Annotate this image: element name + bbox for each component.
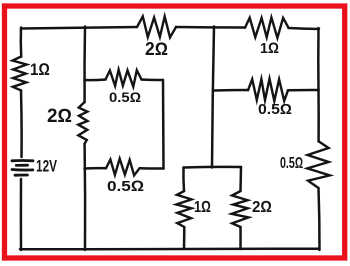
wire top-left segment — [21, 27, 137, 29]
svg-text:0.5Ω: 0.5Ω — [107, 178, 144, 195]
svg-text:1Ω: 1Ω — [30, 60, 50, 79]
wire right (bottom) — [319, 188, 320, 250]
resistor R3 1Ω (top right) — [245, 17, 289, 38]
svg-text:1Ω: 1Ω — [194, 199, 211, 216]
svg-text:12V: 12V — [36, 157, 57, 176]
wire 0.5Ω branch (right lead) — [288, 89, 319, 92]
resistor R7 0.5Ω (right branch) — [248, 79, 288, 101]
wire loop top branch (right lead) — [142, 78, 164, 81]
svg-text:2Ω: 2Ω — [252, 199, 272, 216]
resistor R1 1Ω (left) — [13, 57, 27, 91]
svg-text:2Ω: 2Ω — [145, 39, 168, 59]
resistor R4 2Ω (middle vertical) — [78, 102, 87, 144]
battery V1 12V — [12, 161, 33, 176]
wire left (bottom) — [20, 179, 23, 250]
resistor R8 0.5Ω (far right) — [307, 141, 330, 188]
wire right (top) — [317, 28, 320, 90]
resistor R6 0.5Ω (loop bottom) — [106, 159, 140, 176]
wire loop right side — [162, 80, 165, 169]
wire loop top branch (left lead) — [85, 78, 106, 81]
svg-text:1Ω: 1Ω — [260, 40, 279, 57]
wire loop bottom branch (left lead) — [85, 167, 107, 170]
svg-text:0.5Ω: 0.5Ω — [258, 102, 292, 118]
wire R9 top lead — [182, 168, 185, 192]
wire bracket (parallel pair top) — [184, 166, 242, 169]
wire node-A vertical (top) — [83, 27, 86, 103]
wire loop bottom branch (right lead) — [140, 167, 164, 170]
wire node-A vertical (bottom) — [83, 144, 86, 250]
svg-text:2Ω: 2Ω — [47, 106, 72, 127]
wire left (top) — [20, 28, 23, 57]
wire R10 top lead — [239, 167, 242, 191]
wire R10 bottom lead — [239, 227, 242, 249]
wire 0.5Ω branch (left lead) — [214, 89, 248, 92]
svg-text:0.5Ω: 0.5Ω — [109, 89, 141, 105]
wire R9 bottom lead — [183, 227, 186, 249]
resistor R10 2Ω (bottom right of pair) — [232, 191, 249, 227]
wire bottom — [20, 247, 319, 250]
resistor R9 1Ω (bottom left of pair) — [176, 191, 191, 227]
wire right (middle) — [317, 90, 320, 142]
resistor R2 2Ω (top) — [137, 16, 176, 37]
wire left (middle) — [20, 91, 23, 158]
svg-text:0.5Ω: 0.5Ω — [280, 155, 303, 172]
wire top-right segment — [289, 28, 320, 29]
wire node-B vertical — [212, 27, 214, 168]
wire top-middle segment — [176, 26, 245, 29]
resistor R5 0.5Ω (loop top) — [106, 70, 142, 87]
